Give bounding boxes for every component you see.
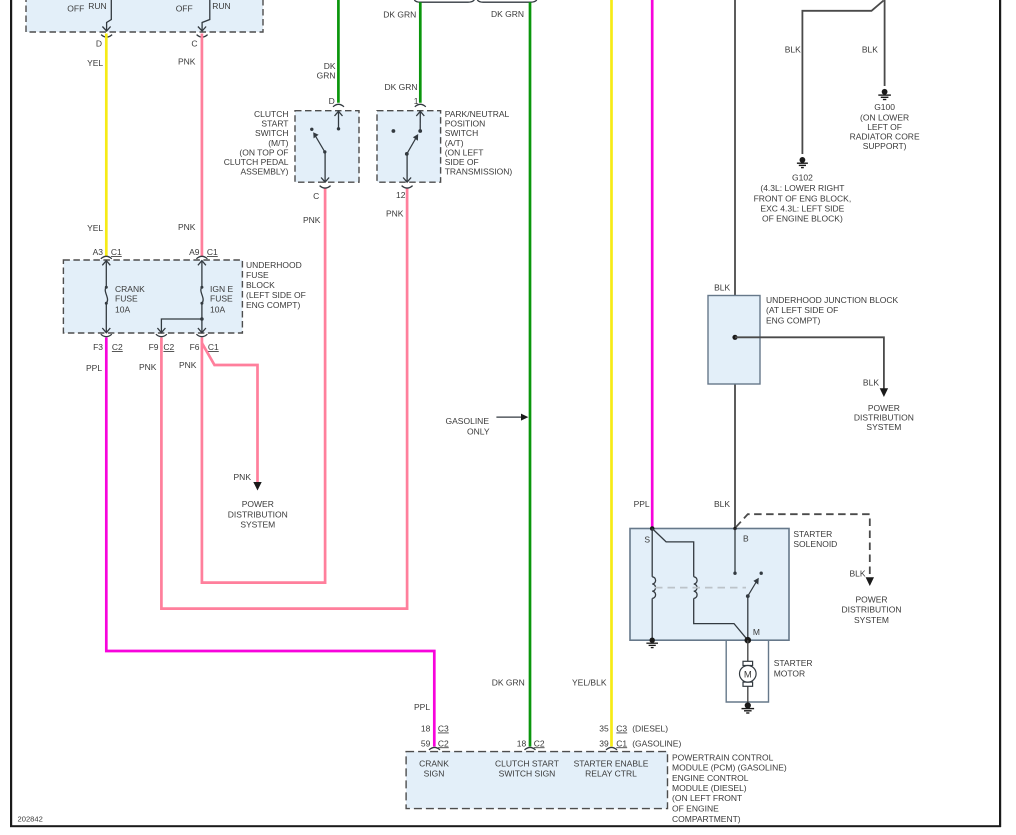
svg-text:C1: C1: [207, 247, 218, 257]
ignition switch RUN contact wire to terminal C: [198, 0, 210, 31]
svg-text:SYSTEM: SYSTEM: [240, 520, 275, 530]
terminal A3 C1: [93, 247, 122, 259]
page frame bottom border: [10, 825, 1001, 827]
terminal A9 C1: [189, 247, 218, 259]
svg-text:PPL: PPL: [86, 363, 102, 373]
wire BLK branch to G102: [785, 1, 884, 155]
solenoid internal ground: [646, 638, 658, 648]
starter motor wire from M: [747, 640, 749, 705]
svg-text:CLUTCH: CLUTCH: [254, 109, 288, 119]
park/neutral position switch box: [377, 111, 441, 183]
svg-text:POSITION: POSITION: [445, 119, 486, 129]
svg-text:ASSEMBLY): ASSEMBLY): [240, 167, 288, 177]
solenoid switch wire to M: [747, 596, 749, 640]
svg-text:STARTER: STARTER: [774, 658, 813, 668]
wire PNK from ignition C to fuse A9: [178, 34, 202, 257]
clutch switch terminal C: [303, 186, 331, 225]
terminal F6 C1: [190, 334, 219, 352]
svg-text:YEL: YEL: [87, 58, 103, 68]
svg-text:POWER: POWER: [868, 403, 900, 413]
svg-text:S: S: [644, 535, 650, 545]
svg-text:STARTER: STARTER: [793, 529, 832, 539]
svg-text:(ON LEFT: (ON LEFT: [445, 147, 484, 157]
wire DK GRN to park/neutral terminal 1: [383, 2, 420, 103]
ign e fuse value label: [210, 284, 233, 315]
svg-text:10A: 10A: [115, 305, 130, 315]
svg-text:GRN: GRN: [317, 70, 336, 80]
svg-text:SUPPORT): SUPPORT): [863, 141, 907, 151]
park/neutral contact stub from 1: [416, 111, 424, 133]
svg-text:A9: A9: [189, 247, 200, 257]
wire BLK dashed from B to power distribution: [736, 514, 870, 578]
svg-text:BLK: BLK: [714, 499, 730, 509]
park/neutral terminal 12: [386, 186, 413, 219]
PCM clutch start switch sign input label: [495, 759, 559, 779]
svg-text:COMPARTMENT): COMPARTMENT): [672, 814, 741, 824]
svg-text:RUN: RUN: [88, 1, 106, 11]
svg-text:UNDERHOOD: UNDERHOOD: [246, 260, 302, 270]
svg-text:(GASOLINE): (GASOLINE): [632, 738, 681, 748]
clutch switch wire to terminal C: [321, 152, 329, 182]
clutch start switch box: [295, 111, 359, 183]
solenoid terminal B: [733, 527, 749, 544]
park/neutral fixed contact: [392, 129, 396, 133]
wire BLK from junction block to power distribution: [735, 337, 884, 389]
svg-text:D: D: [329, 96, 335, 106]
svg-text:G102: G102: [792, 172, 813, 182]
svg-text:18: 18: [517, 738, 527, 748]
svg-text:LEFT OF: LEFT OF: [867, 122, 902, 132]
svg-text:C3: C3: [616, 724, 627, 734]
svg-text:CLUTCH PEDAL: CLUTCH PEDAL: [224, 157, 289, 167]
wire PPL from F3 to PCM crank sign: [86, 338, 434, 747]
svg-text:DK GRN: DK GRN: [384, 82, 417, 92]
park/neutral terminal 1: [414, 96, 426, 107]
PCM starter enable relay ctrl output label: [574, 759, 649, 779]
power distribution arrow (junction block BLK): [880, 388, 888, 397]
wire BLK from top to G100: [862, 0, 885, 86]
svg-text:MODULE (DIESEL): MODULE (DIESEL): [672, 783, 747, 793]
svg-text:ENG COMPT): ENG COMPT): [766, 315, 820, 325]
svg-text:SWITCH: SWITCH: [445, 128, 479, 138]
svg-text:MOTOR: MOTOR: [774, 668, 805, 678]
svg-text:BLOCK: BLOCK: [246, 280, 275, 290]
solenoid terminal M: [745, 627, 760, 644]
solenoid pull-in coil: [652, 577, 655, 599]
svg-text:(4.3L: LOWER RIGHT: (4.3L: LOWER RIGHT: [760, 183, 844, 193]
solenoid coil ground wire: [651, 598, 653, 640]
svg-text:FUSE: FUSE: [115, 293, 138, 303]
top inline connector arc right: [477, 0, 537, 2]
svg-text:STARTER ENABLE: STARTER ENABLE: [574, 759, 649, 769]
svg-text:M: M: [753, 627, 760, 637]
svg-text:C3: C3: [438, 724, 449, 734]
svg-text:59: 59: [421, 738, 431, 748]
svg-text:START: START: [261, 119, 288, 129]
page frame left border: [10, 0, 12, 827]
svg-text:(LEFT SIDE OF: (LEFT SIDE OF: [246, 290, 306, 300]
svg-text:SWITCH: SWITCH: [255, 128, 289, 138]
svg-text:GASOLINE: GASOLINE: [446, 416, 490, 426]
crank fuse value label: [115, 284, 145, 315]
svg-text:PNK: PNK: [179, 360, 197, 370]
top inline connector arc left: [414, 0, 474, 2]
svg-text:BLK: BLK: [714, 283, 730, 293]
svg-text:(A/T): (A/T): [445, 138, 464, 148]
svg-text:DK GRN: DK GRN: [383, 10, 416, 20]
PCM terminal starter enable relay ctrl pins 35 C3 / 39 C1: [599, 724, 681, 750]
gasoline only pointer: [446, 414, 529, 437]
svg-text:SOLENOID: SOLENOID: [793, 539, 837, 549]
svg-text:C1: C1: [111, 247, 122, 257]
svg-text:DISTRIBUTION: DISTRIBUTION: [842, 605, 902, 615]
svg-text:SWITCH SIGN: SWITCH SIGN: [499, 769, 556, 779]
fuse block label text: [246, 260, 306, 310]
clutch switch contact stub from D: [335, 111, 343, 130]
svg-text:OF ENGINE BLOCK): OF ENGINE BLOCK): [762, 214, 843, 224]
park/neutral position switch label: [445, 109, 513, 177]
park/neutral movable arm: [405, 134, 418, 156]
wire YEL/BLK to PCM starter enable relay ctrl: [572, 0, 612, 747]
page frame right border: [999, 0, 1001, 827]
svg-text:BLK: BLK: [850, 569, 866, 579]
svg-text:PNK: PNK: [386, 209, 404, 219]
svg-text:(ON LOWER: (ON LOWER: [860, 112, 909, 122]
svg-text:35: 35: [599, 724, 609, 734]
solenoid hold-in coil: [694, 577, 697, 599]
svg-text:C1: C1: [208, 342, 219, 352]
svg-text:RADIATOR CORE: RADIATOR CORE: [850, 132, 920, 142]
svg-text:CRANK: CRANK: [419, 759, 449, 769]
svg-text:OF ENGINE: OF ENGINE: [672, 804, 719, 814]
PCM crank sign input label: [419, 759, 449, 779]
svg-text:RELAY CTRL: RELAY CTRL: [585, 769, 637, 779]
starter motor housing: [726, 641, 768, 702]
solenoid B contact stub: [733, 529, 736, 575]
ign e fuse 10A: [198, 261, 206, 333]
svg-text:G100: G100: [874, 102, 895, 112]
svg-text:A3: A3: [93, 247, 104, 257]
solenoid linkage dashed: [655, 587, 746, 589]
svg-text:MODULE (PCM) (GASOLINE): MODULE (PCM) (GASOLINE): [672, 763, 787, 773]
svg-text:(ON LEFT FRONT: (ON LEFT FRONT: [672, 793, 742, 803]
park/neutral wire to terminal 12: [403, 154, 411, 182]
svg-text:SYSTEM: SYSTEM: [854, 615, 889, 625]
ground G100: [878, 89, 891, 100]
svg-text:1: 1: [414, 96, 419, 106]
wire PNK branch from F6 to power distribution: [202, 343, 258, 483]
starter motor ground: [742, 702, 755, 713]
underhood fuse block box: [63, 260, 242, 333]
clutch start switch label: [224, 109, 289, 177]
svg-text:F6: F6: [190, 342, 200, 352]
svg-text:YEL: YEL: [87, 223, 103, 233]
svg-text:DK GRN: DK GRN: [492, 678, 525, 688]
svg-text:DISTRIBUTION: DISTRIBUTION: [228, 509, 288, 519]
svg-text:C2: C2: [163, 342, 174, 352]
wire PNK from F6 to clutch switch terminal C: [179, 188, 325, 582]
svg-text:FUSE: FUSE: [210, 293, 233, 303]
svg-text:C2: C2: [112, 342, 123, 352]
svg-text:PPL: PPL: [414, 702, 430, 712]
terminal F9 C2: [149, 334, 175, 352]
svg-text:PNK: PNK: [139, 362, 157, 372]
svg-text:PARK/NEUTRAL: PARK/NEUTRAL: [445, 109, 510, 119]
svg-text:C2: C2: [534, 738, 545, 748]
svg-text:D: D: [96, 39, 102, 49]
svg-text:PNK: PNK: [234, 472, 252, 482]
power distribution system label (solenoid): [842, 594, 902, 625]
svg-text:DK GRN: DK GRN: [491, 9, 524, 19]
svg-text:FUSE: FUSE: [246, 270, 269, 280]
svg-text:PNK: PNK: [178, 57, 196, 67]
ground G102 label: [754, 172, 852, 223]
PCM terminal crank sign pins 18 C3 / 59 C2: [414, 702, 449, 750]
svg-text:UNDERHOOD JUNCTION BLOCK: UNDERHOOD JUNCTION BLOCK: [766, 295, 899, 305]
svg-text:EXC 4.3L: LEFT SIDE: EXC 4.3L: LEFT SIDE: [760, 204, 844, 214]
ignition switch RUN contact wire to terminal D: [102, 0, 111, 31]
svg-text:SIGN: SIGN: [424, 769, 445, 779]
svg-text:C: C: [313, 191, 319, 201]
solenoid switch movable arm: [746, 578, 759, 598]
starter motor symbol: [740, 661, 757, 686]
svg-text:PNK: PNK: [303, 215, 321, 225]
svg-text:SIDE OF: SIDE OF: [445, 157, 479, 167]
svg-text:ENG COMPT): ENG COMPT): [246, 300, 300, 310]
svg-text:POWER: POWER: [242, 499, 274, 509]
svg-text:OFF: OFF: [176, 3, 193, 13]
svg-text:18: 18: [421, 724, 431, 734]
ground G100 label: [850, 102, 920, 151]
PCM label text: [672, 753, 787, 824]
svg-text:OFF: OFF: [67, 3, 84, 13]
power distribution arrow (PNK): [253, 482, 261, 491]
wire BLK from top through junction block to solenoid B: [714, 0, 735, 529]
svg-text:BLK: BLK: [862, 44, 878, 54]
svg-text:ONLY: ONLY: [467, 427, 490, 437]
svg-text:C: C: [191, 39, 197, 49]
power distribution system label (PNK): [228, 499, 288, 530]
junction from ign e fuse to terminal F9: [157, 317, 203, 333]
wire DK GRN to PCM clutch start switch sign: [491, 2, 530, 746]
solenoid internal wire from S: [652, 529, 694, 577]
svg-text:C2: C2: [438, 738, 449, 748]
ground G102: [797, 157, 808, 168]
power distribution system label (junction block): [854, 403, 914, 432]
wire PPL to starter solenoid S: [634, 0, 653, 529]
clutch switch terminal D: [329, 96, 344, 107]
solenoid switch fixed contact: [760, 572, 763, 575]
crank fuse F1 10A: [102, 261, 110, 333]
svg-text:B: B: [743, 534, 749, 544]
junction block node: [732, 335, 737, 340]
svg-text:BLK: BLK: [785, 44, 801, 54]
svg-text:POWERTRAIN CONTROL: POWERTRAIN CONTROL: [672, 753, 774, 763]
svg-text:(M/T): (M/T): [268, 138, 288, 148]
svg-text:ENGINE CONTROL: ENGINE CONTROL: [672, 773, 749, 783]
clutch switch fixed contact: [310, 128, 313, 131]
svg-text:SYSTEM: SYSTEM: [866, 422, 901, 432]
starter solenoid box: [630, 529, 837, 641]
PCM terminal clutch start switch sign pin 18 C2: [517, 738, 545, 750]
svg-text:10A: 10A: [210, 305, 225, 315]
svg-text:CLUTCH START: CLUTCH START: [495, 759, 559, 769]
clutch switch movable arm: [313, 132, 326, 153]
svg-text:POWER: POWER: [855, 594, 887, 604]
wire PNK from F9 to park-neutral terminal 12: [139, 188, 407, 608]
solenoid terminal S: [644, 526, 654, 544]
svg-text:C1: C1: [616, 738, 627, 748]
svg-text:PNK: PNK: [178, 222, 196, 232]
svg-text:(AT LEFT SIDE OF: (AT LEFT SIDE OF: [766, 305, 838, 315]
power distribution arrow (solenoid BLK): [866, 577, 874, 586]
svg-text:PPL: PPL: [634, 499, 650, 509]
underhood junction block: [708, 295, 899, 384]
terminal C connector: [191, 35, 207, 49]
svg-text:202842: 202842: [18, 815, 43, 824]
starter motor label: [774, 658, 813, 678]
svg-text:YEL/BLK: YEL/BLK: [572, 678, 607, 688]
svg-text:M: M: [744, 670, 752, 681]
svg-text:TRANSMISSION): TRANSMISSION): [445, 167, 513, 177]
svg-text:RUN: RUN: [212, 1, 230, 11]
wire YEL from ignition D to fuse A3: [87, 34, 106, 257]
svg-text:F9: F9: [149, 342, 159, 352]
svg-text:F3: F3: [93, 342, 103, 352]
svg-text:39: 39: [599, 738, 609, 748]
terminal F3 C2: [93, 334, 123, 352]
powertrain control module box: [406, 752, 667, 809]
solenoid hold-in coil wire to M: [694, 598, 748, 640]
svg-text:12: 12: [396, 190, 406, 200]
svg-text:BLK: BLK: [863, 378, 879, 388]
svg-text:(DIESEL): (DIESEL): [632, 724, 668, 734]
ignition switch box: [26, 0, 263, 32]
terminal D connector: [96, 35, 112, 49]
wire DK GRN to clutch switch D: [317, 0, 339, 103]
svg-text:(ON TOP OF: (ON TOP OF: [239, 147, 288, 157]
svg-text:FRONT OF ENG BLOCK,: FRONT OF ENG BLOCK,: [754, 193, 852, 203]
